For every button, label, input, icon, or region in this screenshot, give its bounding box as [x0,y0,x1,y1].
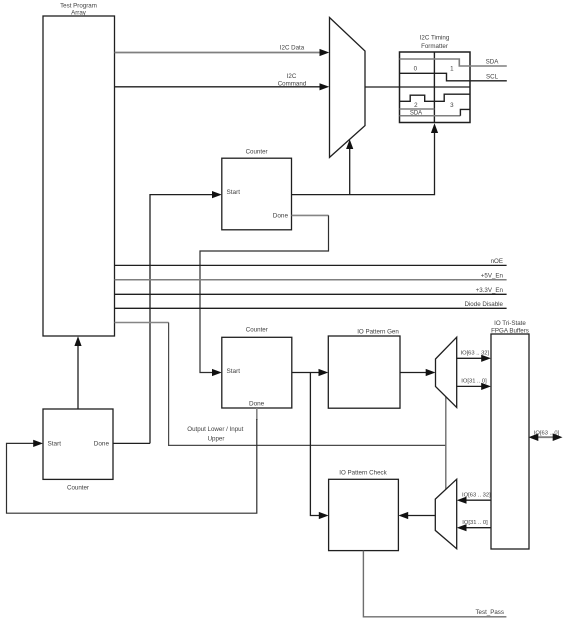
wire: buffers to demux IO[63..32] [457,493,491,504]
wire: IO[63..0] bidirectional [529,430,563,441]
svg-text:IO Pattern Gen: IO Pattern Gen [357,328,399,335]
wire: IO[63..32] to buffers [457,351,491,362]
svg-text:Test Program: Test Program [60,3,97,10]
wire: Counter2 Done feedback to Counter3 Start [7,419,257,513]
formatter gray bar lower with step [400,109,470,115]
svg-text:Array: Array [71,10,87,17]
wire: Diode Disable [115,301,507,308]
demux: input merge bottom [435,479,456,549]
svg-text:Done: Done [249,400,265,407]
formatter center divider [433,52,435,123]
svg-text:IO[63 .. 0]: IO[63 .. 0] [534,430,560,436]
svg-text:2: 2 [414,102,418,109]
wire: Counter2 Done stub [256,408,258,420]
block: I2C Timing Formatter [400,35,471,123]
svg-text:Output Lower / Input: Output Lower / Input [187,426,243,433]
block: Test Program Array [43,3,115,336]
svg-text:FPGA Buffers: FPGA Buffers [491,327,529,334]
mux: I2C source select [330,18,366,158]
wire: demux to IO Pattern Check [398,512,435,519]
block: IO Tri-State FPGA Buffers [491,320,529,549]
svg-text:IO Pattern Check: IO Pattern Check [339,470,387,477]
block: Counter (middle) [222,327,292,408]
wire: buffers to demux IO[31..0] [457,520,491,531]
svg-text:I2C Data: I2C Data [280,45,305,52]
wire: IO Pattern Gen to demux [400,369,436,376]
svg-text:I2C: I2C [287,73,297,80]
svg-text:Diode Disable: Diode Disable [464,301,503,308]
svg-text:IO[63 .. 32]: IO[63 .. 32] [460,351,489,357]
wire: Counter1 Done stub [292,214,329,216]
svg-text:Start: Start [48,441,62,448]
svg-text:Done: Done [273,212,289,219]
block: Counter (bottom) [43,409,113,491]
wire: I2C Command [115,73,330,90]
demux: output split top [436,337,457,407]
wire: +5V_En [115,272,507,279]
block: IO Pattern Gen [328,328,400,408]
svg-text:SDA: SDA [410,111,422,117]
svg-text:1: 1 [450,66,454,73]
waveform 2/3 pulse [400,94,470,101]
svg-text:IO[31 .. 0]: IO[31 .. 0] [462,520,488,526]
formatter gray bar upper [400,108,435,110]
svg-text:SDA: SDA [486,58,500,65]
wire: Test_Pass [363,551,506,617]
svg-text:Start: Start [227,189,241,196]
svg-text:0: 0 [414,66,418,73]
wire: Output Lower / Input Upper select [169,323,446,446]
svg-text:I2C Timing: I2C Timing [420,35,450,42]
block: IO Pattern Check [329,470,399,551]
wire: Counter1 output to formatter select [292,123,439,194]
wire: Counter3 Done up to Counter1 Start [150,191,222,443]
svg-text:Counter: Counter [67,484,89,491]
svg-text:nOE: nOE [491,258,503,265]
wire: branch down to IO Pattern Check start [310,373,328,520]
svg-text:IO[63 .. 32]: IO[63 .. 32] [462,493,491,499]
svg-text:+3.3V_En: +3.3V_En [476,287,504,294]
wire: Counter3 to Test Program Array [74,336,81,409]
wire: mux output to I2C Timing Formatter [365,86,470,88]
svg-text:3: 3 [450,102,454,109]
svg-text:Upper: Upper [208,435,225,442]
wire: IO[31..0] to buffers [457,379,491,390]
wire: Counter2 output to IO Pattern Gen [292,369,329,376]
svg-text:Start: Start [227,368,241,375]
wire: Counter3 Done to junction [113,442,150,444]
waveform 0/1 and SDA output [400,58,507,66]
wire: Output Lower / Input Upper stub [115,322,169,324]
wire: I2C Data [115,45,330,57]
svg-text:IO[31 .. 0]: IO[31 .. 0] [461,379,487,385]
wire: demux select vertical [445,397,447,490]
svg-text:SCL: SCL [486,73,499,80]
svg-text:Counter: Counter [246,327,268,334]
waveform row 2 and SCL output [400,73,507,81]
svg-text:Done: Done [94,441,110,448]
formatter quadrant labels [410,66,454,117]
svg-text:+5V_En: +5V_En [481,272,504,279]
svg-text:Command: Command [278,81,307,88]
svg-text:Test_Pass: Test_Pass [475,609,504,616]
wire: branch to mux select [346,139,353,194]
svg-text:Formatter: Formatter [421,43,448,50]
svg-text:IO Tri-State: IO Tri-State [494,320,526,327]
wire: Counter1 Done to Counter2 Start [200,215,329,376]
svg-text:Counter: Counter [246,148,268,155]
wire: +3.3V_En [115,287,507,294]
block: Counter (upper) [222,148,292,229]
wire: nOE [115,258,507,265]
